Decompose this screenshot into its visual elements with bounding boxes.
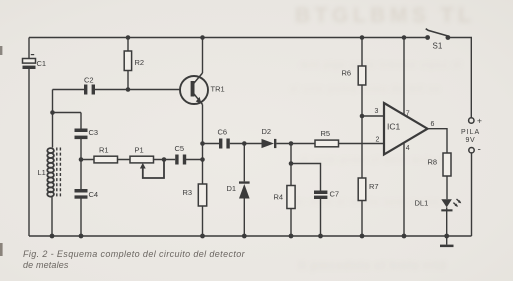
svg-text:PILA: PILA [461, 129, 480, 136]
svg-text:R3: R3 [183, 188, 193, 197]
svg-text:IC1: IC1 [387, 122, 401, 132]
svg-text:-: - [478, 145, 481, 156]
svg-text:DL1: DL1 [415, 199, 429, 208]
svg-text:R7: R7 [369, 182, 379, 191]
svg-text:lt pmcednts cl trnlo rrtd: lt pmcednts cl trnlo rrtd [298, 260, 446, 272]
svg-text:mnt plge snde trmone clpso dl: mnt plge snde trmone clpso dl [300, 60, 462, 71]
svg-text:P1: P1 [135, 146, 144, 155]
svg-text:3: 3 [375, 108, 379, 115]
svg-text:R1: R1 [99, 146, 109, 155]
svg-text:4: 4 [406, 145, 410, 152]
svg-text:R8: R8 [428, 158, 438, 167]
svg-text:L1: L1 [38, 168, 46, 177]
svg-text:Fig. 2 - Esquema completo del: Fig. 2 - Esquema completo del circuito d… [23, 249, 246, 259]
svg-text:C2: C2 [84, 76, 94, 85]
svg-text:R6: R6 [342, 69, 352, 78]
svg-text:2: 2 [376, 137, 380, 144]
svg-text:C3: C3 [89, 128, 99, 137]
svg-text:C5: C5 [175, 144, 185, 153]
svg-text:+: + [477, 116, 482, 126]
svg-text:BTGLBMS TL: BTGLBMS TL [295, 4, 475, 27]
svg-text:TR1: TR1 [211, 85, 225, 94]
svg-text:C6: C6 [218, 128, 228, 137]
svg-text:6: 6 [431, 121, 435, 128]
svg-text:7: 7 [406, 111, 410, 118]
svg-text:de metales: de metales [23, 260, 69, 270]
svg-text:R4: R4 [274, 193, 284, 202]
svg-text:C7: C7 [330, 190, 340, 199]
svg-text:S1: S1 [433, 42, 443, 51]
svg-text:D1: D1 [227, 184, 237, 193]
svg-text:R5: R5 [321, 129, 331, 138]
svg-text:R2: R2 [135, 58, 145, 67]
svg-text:C4: C4 [89, 190, 99, 199]
svg-text:D2: D2 [262, 127, 272, 136]
svg-text:C1: C1 [37, 59, 47, 68]
svg-text:9V: 9V [466, 137, 476, 144]
